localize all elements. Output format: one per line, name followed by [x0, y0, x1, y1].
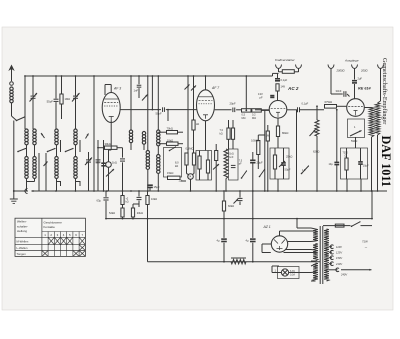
- capacitor: [231, 165, 236, 167]
- wire: [97, 140, 99, 191]
- wire: [280, 231, 312, 242]
- coil L1c: [25, 157, 28, 179]
- coil L7: [157, 130, 160, 146]
- trimmer arrow: [185, 85, 190, 90]
- output transformer secondary: [375, 72, 380, 191]
- svg-text:1kΩ: 1kΩ: [112, 161, 117, 165]
- wire: [147, 75, 149, 150]
- capacitor 10uF: [358, 148, 369, 179]
- svg-text:4µ: 4µ: [217, 239, 220, 243]
- svg-text:Gemeinschafts-Empfänger: Gemeinschafts-Empfänger: [381, 58, 388, 124]
- lamp 7A: [187, 174, 195, 192]
- wire: [187, 75, 189, 153]
- svg-text:71W: 71W: [362, 240, 368, 244]
- svg-text:Ausgänge: Ausgänge: [344, 59, 359, 63]
- resistor: [192, 75, 199, 153]
- trimmer arrow: [142, 95, 148, 101]
- electrolytic 4uF: [217, 219, 227, 263]
- grid capacitor: [270, 96, 274, 98]
- capacitor: [137, 191, 142, 207]
- resistor 0.5M tall: [251, 135, 260, 169]
- tube AC2: [269, 101, 287, 119]
- wire: [76, 140, 81, 186]
- output terminal: [296, 65, 302, 73]
- svg-text:Kontakte: Kontakte: [44, 225, 56, 229]
- wire: [130, 75, 132, 130]
- trimmer arrow: [310, 130, 316, 137]
- coil L2b: [55, 157, 58, 179]
- svg-text:10µ: 10µ: [329, 163, 334, 166]
- title Gemeinschafts-Empfaenger: [381, 58, 388, 124]
- resistor 15k: [167, 171, 186, 182]
- svg-text:13V: 13V: [258, 92, 263, 96]
- antenna change-over switch: [12, 116, 26, 121]
- svg-text:110V: 110V: [336, 245, 342, 249]
- wire: [24, 75, 26, 129]
- svg-text:150V: 150V: [336, 256, 342, 260]
- grid network box: [196, 151, 212, 181]
- svg-text:0,1µF: 0,1µF: [281, 78, 288, 82]
- band-switch table: [15, 218, 85, 256]
- padder trimmer: [85, 152, 92, 191]
- svg-text:30kΩ: 30kΩ: [105, 142, 111, 146]
- coil L5: [142, 132, 145, 145]
- svg-text:kΩ: kΩ: [126, 200, 129, 203]
- svg-text:10kΩ: 10kΩ: [151, 197, 157, 201]
- resistor 25k: [273, 148, 292, 179]
- output transformer primary: [369, 108, 373, 192]
- label 2000ohm: [336, 69, 345, 73]
- wire top HT bus: [25, 75, 273, 77]
- svg-text:200Ω: 200Ω: [360, 69, 368, 73]
- tube AF7: [197, 90, 215, 121]
- wire: [347, 137, 361, 191]
- coil L2a: [55, 129, 58, 145]
- switch: [259, 169, 265, 177]
- band switch S3: [65, 148, 74, 152]
- svg-text:80kΩ: 80kΩ: [282, 131, 288, 135]
- resistor 149: [276, 84, 285, 101]
- capacitor 50pF: [120, 75, 196, 121]
- svg-text:Kraftverstärker: Kraftverstärker: [275, 58, 296, 62]
- coil L1a: [25, 129, 28, 145]
- capacitor 33nF: [331, 72, 350, 97]
- wire: [205, 75, 207, 90]
- wire ground bus C: [148, 261, 321, 263]
- screen-grid network box: [164, 148, 182, 178]
- junction dots ground bus: [13, 190, 379, 192]
- svg-text:0,1µF: 0,1µF: [302, 102, 309, 106]
- resistor 7300: [343, 148, 349, 179]
- svg-text:0,1MΩ: 0,1MΩ: [186, 147, 194, 151]
- svg-text:20µF: 20µF: [257, 161, 264, 165]
- resistor: [198, 151, 201, 181]
- wire: [105, 85, 111, 96]
- trimmer C1: [30, 75, 38, 129]
- svg-text:kΩ: kΩ: [196, 123, 199, 126]
- coil L3b: [74, 157, 77, 179]
- wire: [284, 250, 312, 253]
- capacitor 0.1uF: [287, 102, 324, 113]
- capacitor 2uF: [352, 72, 362, 99]
- resistor 0.5M: [242, 109, 252, 120]
- electrolytic 1k: [106, 121, 117, 192]
- antenna coil: [10, 87, 13, 116]
- svg-text:kΩ: kΩ: [220, 132, 223, 135]
- resistor 1M: [60, 75, 70, 119]
- tube AZ1: [271, 236, 287, 252]
- band switch S1: [17, 148, 26, 152]
- trimmer arrow: [44, 162, 48, 167]
- trimmer arrow: [279, 161, 285, 167]
- wire: [255, 109, 269, 111]
- wire: [147, 219, 149, 262]
- resistor 10k: [158, 138, 183, 145]
- wire ground bus: [14, 190, 387, 192]
- label Kraftverstaerker: [275, 58, 296, 62]
- resistor 62k zigzag: [313, 120, 319, 191]
- resistor: [215, 144, 218, 191]
- antenna terminal: [8, 65, 14, 86]
- svg-text:20pF: 20pF: [230, 102, 236, 106]
- resistor 20k: [97, 142, 122, 149]
- resistor 80k: [276, 118, 288, 148]
- svg-text:L-Wellen: L-Wellen: [17, 246, 28, 250]
- svg-text:50pF: 50pF: [156, 112, 162, 116]
- mains tap 150V: [329, 256, 342, 260]
- wire: [103, 140, 105, 191]
- svg-text:10µF: 10µF: [363, 164, 369, 168]
- label 1.5: [302, 169, 306, 172]
- resistor chain 2: [131, 204, 143, 220]
- resistor field coil: [231, 258, 246, 264]
- svg-text:240V: 240V: [340, 273, 347, 277]
- resistor zigzag: [224, 149, 228, 191]
- capacitor 20pF: [215, 102, 242, 113]
- svg-text:2µF: 2µF: [358, 76, 363, 80]
- coil L1b: [33, 129, 36, 145]
- wire: [261, 109, 269, 111]
- label 13V: [258, 92, 263, 100]
- svg-text:MΩ: MΩ: [242, 117, 246, 120]
- wire: [93, 75, 95, 191]
- resistor 1M: [266, 125, 270, 191]
- svg-text:125V: 125V: [336, 251, 342, 255]
- svg-text:AZ 1: AZ 1: [263, 225, 271, 229]
- wire: [273, 73, 279, 76]
- chassis connector: [25, 189, 31, 194]
- svg-text:50µF: 50µF: [285, 168, 291, 172]
- label 0.1M: [186, 147, 194, 151]
- svg-text:pF: pF: [260, 96, 263, 100]
- svg-text:33nF: 33nF: [336, 89, 342, 93]
- svg-text:7A: 7A: [188, 176, 191, 179]
- wire: [131, 75, 159, 191]
- label 200ohm: [360, 69, 368, 73]
- coil L8: [157, 155, 160, 174]
- svg-text:1MΩ: 1MΩ: [65, 97, 71, 101]
- coupling choke: [279, 70, 299, 74]
- ground: [10, 190, 18, 203]
- switch: [301, 165, 309, 174]
- svg-text:M-Wellen: M-Wellen: [17, 240, 29, 244]
- svg-text:15kΩ: 15kΩ: [167, 171, 173, 175]
- resistor chain 3: [146, 191, 157, 220]
- trimmer arrow: [213, 164, 219, 170]
- mains tap 110V: [329, 245, 342, 249]
- svg-text:kΩ: kΩ: [175, 164, 178, 168]
- capacitor 20uF: [250, 152, 263, 191]
- svg-text:590Ω: 590Ω: [351, 139, 357, 143]
- svg-text:RE 614: RE 614: [358, 87, 372, 91]
- tone network box: [229, 149, 239, 180]
- svg-text:AF 7: AF 7: [211, 86, 219, 90]
- mains switch: [344, 221, 372, 227]
- output terminal: [378, 65, 384, 73]
- wire antenna down-lead: [13, 121, 15, 192]
- svg-text:70kΩ: 70kΩ: [167, 127, 173, 131]
- wire: [245, 75, 247, 111]
- svg-text:60kΩ: 60kΩ: [228, 204, 234, 208]
- trimmer C2: [72, 75, 80, 129]
- svg-text:Geschlossene: Geschlossene: [44, 220, 63, 224]
- svg-text:1nF: 1nF: [134, 89, 139, 93]
- capacitor: [234, 190, 243, 205]
- band switch S2: [47, 148, 56, 152]
- label AZ1: [263, 225, 271, 229]
- wire: [277, 179, 279, 192]
- cathode network box: [270, 148, 289, 179]
- tube AF3: [102, 93, 120, 123]
- capacitor 50uF: [281, 148, 291, 179]
- svg-text:∼: ∼: [365, 246, 368, 250]
- capacitor 1nF: [134, 75, 142, 98]
- resistor: [185, 153, 188, 174]
- svg-text:210V: 210V: [335, 262, 342, 266]
- wire HT bus B: [106, 218, 372, 220]
- mains tap 210V: [329, 262, 342, 266]
- tube RE614: [347, 99, 365, 117]
- fuse: [323, 224, 344, 227]
- grid leak network: [316, 105, 318, 120]
- label Ausgaenge: [344, 59, 359, 63]
- capacitor 15uF: [147, 185, 160, 191]
- svg-text:1nF: 1nF: [229, 156, 234, 159]
- svg-text:Tongen: Tongen: [17, 252, 27, 256]
- svg-text:10kΩ: 10kΩ: [167, 138, 173, 142]
- coil L1d: [33, 157, 36, 179]
- wire: [39, 153, 46, 191]
- label 590: [351, 139, 357, 143]
- coil L4: [129, 130, 132, 143]
- label AF3: [113, 87, 121, 91]
- svg-text:4µ: 4µ: [246, 239, 249, 243]
- wire: [27, 145, 35, 182]
- variable resistor: [350, 131, 362, 137]
- resistor: [192, 153, 195, 174]
- label 8.0k: [175, 161, 179, 168]
- svg-text:AC 2: AC 2: [287, 86, 299, 91]
- svg-text:schalter-: schalter-: [17, 224, 28, 228]
- svg-text:AF 3: AF 3: [113, 87, 121, 91]
- svg-text:Wellen-: Wellen-: [17, 220, 27, 224]
- svg-text:2000Ω: 2000Ω: [336, 69, 345, 73]
- wire: [296, 218, 311, 228]
- title DAF 1011: [379, 136, 393, 187]
- mains tap 125V: [329, 250, 342, 254]
- output terminal: [328, 65, 334, 73]
- wire: [364, 107, 371, 109]
- resistor: [206, 151, 209, 181]
- electrolytic 100u: [96, 162, 106, 166]
- coil L6: [146, 151, 149, 170]
- svg-text:stellung: stellung: [17, 229, 27, 233]
- svg-text:20kΩ: 20kΩ: [137, 211, 143, 215]
- svg-text:6,3V: 6,3V: [290, 270, 295, 273]
- trimmer arrow: [106, 169, 114, 177]
- resistor: [231, 120, 234, 149]
- resistor 67W: [325, 100, 347, 108]
- wire: [371, 190, 373, 219]
- resistor 7.0k: [220, 120, 231, 149]
- wire: [205, 121, 207, 151]
- svg-text:1M: 1M: [266, 136, 269, 138]
- switch: [241, 170, 247, 178]
- svg-text:55pF: 55pF: [47, 100, 54, 104]
- pilot lamp: [272, 266, 311, 279]
- wire: [296, 110, 298, 191]
- output terminal: [276, 65, 282, 73]
- small capacitor: [96, 140, 101, 162]
- svg-text:52kΩ: 52kΩ: [109, 211, 115, 215]
- svg-text:62kΩ: 62kΩ: [313, 150, 319, 154]
- trimmer arrow: [41, 133, 45, 138]
- transformer secondary: [324, 229, 329, 281]
- resistor 0.2M: [251, 109, 262, 120]
- capacitor 63u: [97, 191, 109, 220]
- wire: [262, 244, 271, 253]
- label AF7: [211, 86, 219, 90]
- capacitor 10uF screen: [329, 109, 340, 191]
- coil L3a: [74, 129, 77, 145]
- capacitor 0.1uF: [120, 148, 125, 191]
- wire: [252, 190, 254, 219]
- bias network box: [341, 148, 368, 179]
- output terminal: [352, 65, 358, 73]
- mains tap 240V: [329, 268, 372, 277]
- resistor chain 1: [109, 191, 129, 220]
- electrolytic 4uF: [246, 219, 256, 263]
- label RE614: [358, 87, 372, 91]
- trimmer arrow: [86, 134, 89, 139]
- svg-text:DAF 1011: DAF 1011: [379, 136, 393, 187]
- cathode box RE614: [348, 119, 365, 138]
- svg-text:25kΩ: 25kΩ: [286, 155, 292, 159]
- wire: [57, 140, 61, 186]
- svg-text:MΩ: MΩ: [252, 117, 256, 120]
- svg-text:67WΩ: 67WΩ: [325, 100, 333, 104]
- svg-text:149: 149: [281, 85, 286, 89]
- mains transformer core: [320, 226, 323, 284]
- label 7.5pF: [239, 160, 243, 166]
- wire: [27, 182, 76, 192]
- switch: [169, 146, 176, 151]
- svg-text:10µ: 10µ: [96, 162, 101, 165]
- capacitor 55pF: [47, 75, 59, 129]
- wire: [258, 110, 265, 191]
- trimmer arrow: [191, 86, 196, 91]
- capacitor 0.1uF: [275, 73, 288, 82]
- transformer primary: [311, 228, 318, 281]
- svg-text:0,5MΩ: 0,5MΩ: [251, 139, 259, 143]
- svg-text:63µ: 63µ: [97, 198, 102, 202]
- svg-text:15µF: 15µF: [154, 185, 161, 189]
- label 71W: [362, 240, 368, 250]
- label AC2: [287, 86, 299, 91]
- resistor 60k: [222, 190, 234, 219]
- svg-text:0,3A: 0,3A: [290, 274, 295, 277]
- resistor 70k: [158, 127, 183, 134]
